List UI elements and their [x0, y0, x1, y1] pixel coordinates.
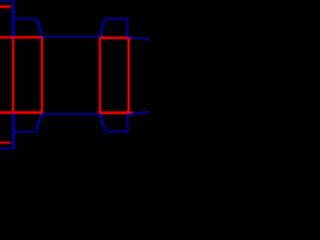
- blue vertical wire left lower: [12, 113, 15, 149]
- red trace: bottom-left stub wire: [0, 142, 10, 144]
- blue low level wire bottom-right: [105, 131, 128, 133]
- red trace: lower rail right segment: [99, 111, 134, 114]
- blue mid level wire upper: [42, 36, 101, 38]
- blue vertical wire right upper: [126, 18, 128, 37]
- blue falling edge bottom-left: [37, 115, 43, 132]
- red vertical wire V4: [128, 37, 130, 113]
- red vertical wire V3: [99, 37, 101, 113]
- blue gentle slope wire top-right: [127, 37, 151, 40]
- blue rising edge top-right: [101, 19, 106, 37]
- blue low level wire bottom-left: [13, 131, 37, 133]
- red vertical wire V2: [41, 37, 43, 113]
- blue high level wire top-left: [13, 18, 37, 20]
- blue trace: bottom edge wire: [0, 147, 13, 149]
- blue trace: top edge wire: [0, 0, 13, 2]
- blue gentle slope wire bottom-right: [127, 112, 151, 115]
- blue falling edge bottom-right: [101, 115, 106, 131]
- red trace: lower rail left segment: [0, 111, 43, 114]
- blue vertical wire left upper: [12, 1, 15, 37]
- blue high level wire top-right: [105, 18, 128, 20]
- red vertical wire V1: [12, 37, 14, 113]
- red trace: upper rail right segment: [99, 37, 134, 40]
- blue falling edge top-left: [36, 19, 41, 37]
- blue vertical wire right lower: [126, 115, 128, 132]
- red trace: upper rail left segment: [0, 36, 43, 39]
- red trace: top-left stub wire: [0, 5, 11, 8]
- blue mid level wire lower: [42, 113, 101, 115]
